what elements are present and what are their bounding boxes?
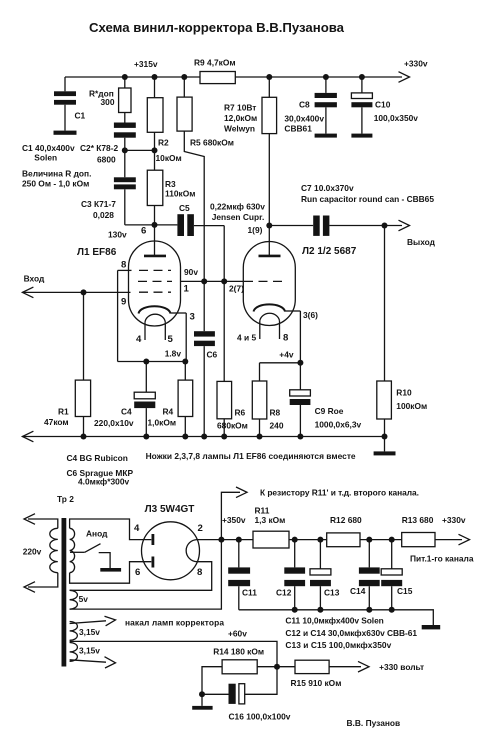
svg-text:R9 4,7кОм: R9 4,7кОм (194, 58, 236, 68)
wire R15 to +330 arrow (329, 661, 369, 672)
svg-text:CBB61: CBB61 (284, 124, 312, 134)
node pin labels L1 (121, 260, 198, 359)
wire anode lead L2 pin 1(9) (268, 226, 270, 256)
node +330 вольт label (379, 662, 424, 672)
tube L1 cathode arc (139, 306, 171, 313)
tube L1 anode bar pin 6 (144, 255, 166, 258)
transformer primary winding 220v (23, 514, 58, 593)
node pin 1(9) label (248, 225, 263, 235)
svg-text:C10: C10 (375, 100, 391, 110)
svg-text:3,15v: 3,15v (79, 646, 100, 656)
node junction dot R2 rail (152, 74, 158, 80)
tube L2 1/2 5687 envelope (243, 242, 295, 326)
resistor R10 100кОм (377, 226, 427, 437)
node junction dot +60v R14 R15 (274, 664, 280, 670)
svg-text:C16 100,0x100v: C16 100,0x100v (229, 712, 291, 722)
svg-text:4: 4 (134, 523, 140, 534)
capacitor C5 (177, 203, 224, 281)
svg-text:R13 680: R13 680 (402, 515, 434, 525)
capacitor C10 100,0x350v (351, 77, 418, 134)
svg-text:220v: 220v (23, 547, 42, 557)
capacitor C3 K71-7 0,028 (114, 150, 155, 225)
ground cap rail (422, 625, 441, 629)
capacitor C8 30,0x400v CBB61 (284, 77, 337, 134)
svg-text:6: 6 (135, 567, 140, 578)
svg-text:8: 8 (197, 567, 203, 578)
svg-text:240: 240 (270, 421, 284, 431)
capacitor C7 (301, 183, 434, 236)
svg-text:C11 10,0мкфх400v Solen: C11 10,0мкфх400v Solen (285, 616, 383, 626)
svg-text:4 и 5: 4 и 5 (237, 333, 256, 343)
tube L3 plate pin 4 (151, 534, 154, 545)
node +330v psu label (410, 515, 474, 564)
wire grid line L1 to L2 (180, 280, 244, 282)
resistor R7 12,0кОм Welwyn (224, 77, 277, 226)
resistor R2 10кОм (147, 77, 181, 163)
node pin labels L2 (237, 310, 318, 360)
svg-text:8: 8 (121, 260, 127, 271)
note nakal text (125, 618, 224, 628)
capacitor C15 (381, 540, 413, 610)
svg-text:R5 680кОм: R5 680кОм (190, 138, 234, 148)
node pin 6 label (108, 226, 146, 240)
tube L3 5W4GT envelope (142, 522, 200, 580)
node junction dot C16 left (199, 691, 205, 697)
svg-text:C13: C13 (324, 588, 340, 598)
tube L2 heater stubs (260, 321, 280, 339)
capacitor C4 220,0x10v (94, 362, 155, 437)
wire pin 3(6) L2 (285, 311, 300, 363)
title (89, 20, 345, 35)
svg-text:Л2 1/2 5687: Л2 1/2 5687 (302, 246, 357, 257)
svg-text:100кОм: 100кОм (396, 401, 427, 411)
wire ground rail with left arrow (22, 431, 384, 442)
svg-text:R2: R2 (158, 138, 169, 148)
resistor R14 180 кОм (213, 647, 264, 674)
tube L2 heater dome (260, 313, 280, 320)
svg-text:R3: R3 (165, 179, 176, 189)
svg-text:9: 9 (121, 297, 126, 308)
svg-text:В.В. Пузанов: В.В. Пузанов (347, 718, 401, 728)
svg-text:Jensen Cupr.: Jensen Cupr. (212, 212, 265, 222)
svg-text:C4: C4 (121, 407, 132, 417)
svg-text:C1 40,0x400v: C1 40,0x400v (22, 143, 75, 153)
transformer 3,15v winding 2 (70, 643, 101, 662)
svg-text:C6: C6 (207, 350, 218, 360)
labels C5 network (210, 202, 265, 223)
tube L1 grid g3 dashes (139, 269, 171, 271)
wire R14 to R15 (257, 666, 295, 668)
svg-text:6: 6 (141, 226, 146, 237)
svg-text:C12: C12 (276, 588, 292, 598)
svg-text:30,0x400v: 30,0x400v (284, 114, 324, 124)
node +60v label (228, 629, 247, 639)
wire R12 to R13 (360, 539, 402, 541)
node junction dot C14 top (366, 537, 372, 543)
wire pin 3 L1 (171, 313, 187, 362)
wire L1 cathode junction line (118, 361, 187, 363)
tube L1 EF86 envelope (129, 241, 181, 326)
svg-text:+330v: +330v (404, 59, 428, 69)
tube L1 heater pin 4 stub (144, 322, 146, 340)
capacitor C2 K78-2 6800 (114, 123, 136, 151)
resistor R1 47ком (44, 292, 91, 436)
svg-text:Выход: Выход (407, 237, 436, 247)
note second channel text (260, 488, 419, 498)
node pin labels L3 (134, 523, 203, 578)
tube L1 heater pin 5 stub (164, 322, 166, 340)
tube L1 grid g2 dashes (138, 280, 172, 282)
wire R13 to +330v arrow (435, 534, 470, 545)
capacitor C14 (350, 540, 380, 610)
svg-text:R14 180 кОм: R14 180 кОм (213, 647, 264, 657)
wire pin 8 L1 (118, 270, 132, 361)
tube L3 plate pin 6 (151, 557, 154, 568)
svg-text:C11: C11 (242, 588, 257, 598)
svg-text:R10: R10 (396, 388, 412, 398)
capacitor C9 Roe 1000,0x6,3v (290, 363, 362, 437)
capacitor C16 100,0x100v (202, 667, 291, 722)
svg-text:1000,0x6,3v: 1000,0x6,3v (315, 420, 362, 430)
capacitor C6 (194, 281, 218, 436)
svg-text:Ножки 2,3,7,8 лампы Л1 EF86 со: Ножки 2,3,7,8 лампы Л1 EF86 соединяются … (146, 451, 356, 461)
wire 5v winding bottom to pin 2 node (70, 540, 222, 610)
svg-text:680кОм: 680кОм (217, 421, 248, 431)
svg-text:+330 вольт: +330 вольт (379, 662, 424, 672)
node junction dot R7 rail (266, 74, 272, 80)
wire anode node to C7 (269, 225, 313, 227)
svg-text:+315v: +315v (134, 59, 158, 69)
tube L2 anode bar (259, 255, 281, 258)
node dots on cap rail (292, 607, 395, 613)
svg-text:Величина R доп.: Величина R доп. (22, 169, 91, 179)
svg-text:Анод: Анод (86, 529, 108, 539)
wire to second channel arrow (221, 487, 247, 540)
svg-text:C12 и C14 30,0мкфх630v СВВ-61: C12 и C14 30,0мкфх630v СВВ-61 (285, 628, 417, 638)
svg-text:+4v: +4v (279, 350, 294, 360)
node junction dot C10 rail (359, 74, 365, 80)
ground R10 (374, 437, 396, 456)
transformer 3,15v winding 1 (70, 622, 101, 641)
svg-text:0,22мкф 630v: 0,22мкф 630v (210, 202, 265, 212)
wire anode lead L1 (154, 225, 156, 255)
svg-text:300: 300 (101, 97, 115, 107)
svg-text:47ком: 47ком (44, 417, 69, 427)
svg-text:110кОм: 110кОм (165, 189, 195, 199)
capacitor C1 (54, 77, 86, 131)
ground C10 (351, 134, 372, 138)
svg-text:2: 2 (198, 523, 203, 534)
svg-text:4: 4 (136, 334, 142, 345)
svg-text:Пит.1-го канала: Пит.1-го канала (410, 554, 474, 564)
node +330v top label (404, 59, 428, 69)
svg-text:Вход: Вход (24, 274, 45, 284)
tube L3 label (145, 504, 195, 515)
node junction dot output R10 (382, 223, 388, 229)
ground C8 (315, 134, 337, 138)
resistor R11 1,3 кОм (253, 506, 289, 549)
node +315v label (134, 59, 158, 69)
svg-text:5: 5 (168, 334, 174, 345)
wire R11 to R12 (289, 539, 327, 541)
svg-text:1.8v: 1.8v (165, 349, 182, 359)
node pin 2(7) label (229, 284, 244, 294)
svg-text:Л1 EF86: Л1 EF86 (77, 247, 117, 258)
svg-text:Л3 5W4GT: Л3 5W4GT (145, 504, 195, 515)
node junction dot R2 bottom (152, 147, 158, 153)
wire anode node to C5 (155, 224, 178, 226)
resistor R8 240 (252, 363, 284, 437)
node junction dot C2 bottom (122, 147, 128, 153)
node junction dot +4v (297, 360, 303, 366)
tube L1 heater dome (145, 314, 165, 322)
node junction dot grid line C5 (221, 278, 227, 284)
svg-text:C13 и C15 100,0мкфх350v: C13 и C15 100,0мкфх350v (285, 640, 391, 650)
svg-text:Схема винил-корректора В.В.Пуз: Схема винил-корректора В.В.Пузанова (89, 20, 345, 35)
node junction dot anode L2 (266, 223, 272, 229)
node Выход label (407, 237, 436, 247)
svg-text:C2* К78-2: C2* К78-2 (80, 143, 119, 153)
tube L3 filament arc (186, 540, 197, 562)
svg-text:1,0кОм: 1,0кОм (148, 418, 177, 428)
svg-text:250 Ом - 1,0 кОм: 250 Ом - 1,0 кОм (22, 179, 89, 189)
node junction dot grid line R5 (201, 278, 207, 284)
wire heater arrow 1 (70, 616, 116, 626)
svg-text:C5: C5 (179, 203, 190, 213)
tube L1 grid g1 dashes (139, 291, 171, 293)
svg-text:C7 10.0x370v: C7 10.0x370v (301, 183, 354, 193)
svg-text:C3 К71-7: C3 К71-7 (81, 199, 116, 209)
svg-text:Тр 2: Тр 2 (57, 494, 74, 504)
svg-text:100,0x350v: 100,0x350v (374, 113, 419, 123)
resistor R5 680кОм (177, 77, 234, 281)
node junction dot C15 top (389, 537, 395, 543)
node junction dot anode L1 (152, 222, 158, 228)
resistor R9 4,7кОм (194, 58, 236, 84)
svg-text:К резистору R11' и т.д. второг: К резистору R11' и т.д. второго канала. (260, 488, 419, 498)
node Вход label (24, 274, 45, 284)
note pins text (146, 451, 356, 461)
tube L2 label (302, 246, 357, 257)
svg-text:C1: C1 (75, 111, 86, 121)
svg-text:3(6): 3(6) (303, 310, 318, 320)
node junction dot R'доп rail (122, 74, 128, 80)
svg-text:+60v: +60v (228, 629, 247, 639)
tube L2 cathode arc (254, 304, 286, 311)
node junction dot C11 top (236, 537, 242, 543)
labels C1 C2 notes (22, 143, 119, 220)
node junction dot C12 top (292, 537, 298, 543)
svg-text:1,3 кОм: 1,3 кОм (255, 515, 286, 525)
svg-text:3,15v: 3,15v (79, 627, 100, 637)
svg-text:R4: R4 (163, 407, 174, 417)
wire +60v center tap line (70, 641, 277, 666)
wire C7 to output (329, 220, 409, 231)
ground switch (100, 568, 121, 572)
resistor R6 680кОм (217, 281, 248, 436)
wire heater arrow 2 (70, 657, 116, 668)
svg-text:6800: 6800 (97, 155, 116, 165)
svg-text:12,0кОм: 12,0кОм (224, 113, 257, 123)
svg-text:10кОм: 10кОм (156, 153, 182, 163)
svg-text:C14: C14 (350, 586, 366, 596)
svg-text:3: 3 (190, 312, 195, 323)
svg-text:+350v: +350v (222, 515, 246, 525)
svg-text:130v: 130v (108, 230, 127, 240)
resistor R*доп 300 (89, 77, 131, 123)
svg-text:C4 BG Rubicon: C4 BG Rubicon (67, 453, 128, 463)
svg-text:1: 1 (184, 284, 190, 295)
note filter caps text (285, 616, 417, 651)
tube L1 label (77, 247, 117, 258)
ground R14 (192, 706, 212, 710)
svg-text:4.0мкф*300v: 4.0мкф*300v (78, 477, 129, 487)
resistor R15 910 кОм (291, 660, 342, 688)
ground C1 (54, 131, 77, 135)
svg-text:5v: 5v (79, 594, 89, 604)
node Вход input arrow (22, 287, 130, 298)
wire filter cap rail (239, 610, 433, 625)
svg-text:Welwyn: Welwyn (224, 124, 255, 134)
author signature (347, 718, 401, 728)
resistor R12 680 (327, 515, 362, 547)
svg-text:Solen: Solen (34, 153, 57, 163)
wire +315v top rail (65, 72, 410, 83)
transformer 5v winding (70, 590, 89, 609)
svg-text:R12 680: R12 680 (330, 515, 362, 525)
node junction dot C4 top (143, 359, 149, 365)
wire pin 8 to 5v winding top (70, 562, 212, 591)
svg-text:2(7): 2(7) (229, 284, 244, 294)
svg-text:R1: R1 (58, 407, 69, 417)
resistor R13 680 (402, 515, 435, 547)
svg-text:R15 910 кОм: R15 910 кОм (291, 678, 342, 688)
svg-text:C9 Roe: C9 Roe (315, 406, 344, 416)
switch anode center tap (70, 544, 110, 568)
wire C2 to R2 (125, 149, 155, 151)
svg-text:90v: 90v (184, 267, 198, 277)
capacitor C13 (310, 540, 340, 610)
node +350v label (222, 515, 246, 525)
wire HV top to pin 4 (70, 519, 152, 540)
resistor R4 1,0кОм (148, 362, 193, 437)
svg-text:+330v: +330v (442, 515, 466, 525)
transformer HV anode winding (70, 528, 109, 572)
note C4 C6 text (67, 453, 134, 487)
node junction dot C8 rail (323, 74, 329, 80)
node junction dot input R1 (81, 289, 87, 295)
svg-text:1(9): 1(9) (248, 225, 263, 235)
svg-text:R8: R8 (270, 408, 281, 418)
wire R14 left to ground (202, 667, 222, 706)
wire pin 2 to R11 (197, 539, 253, 541)
svg-text:8: 8 (283, 333, 289, 344)
svg-text:220,0x10v: 220,0x10v (94, 418, 134, 428)
node junction dot C13 top (317, 537, 323, 543)
transformer Tp2 label (57, 494, 74, 504)
svg-text:R11: R11 (255, 506, 270, 516)
svg-text:Run capacitor round can - CBB6: Run capacitor round can - CBB65 (301, 194, 434, 204)
svg-text:C8: C8 (299, 100, 310, 110)
wire HV bottom to pin 6 (70, 562, 152, 584)
tube L2 grid dashes (244, 280, 285, 282)
node junction dot pin2 B+ (218, 537, 224, 543)
resistor R3 110кОм (147, 150, 195, 225)
svg-text:R7 10Вт: R7 10Вт (224, 103, 256, 113)
node dots on ground rail (81, 434, 388, 440)
svg-text:накал ламп корректора: накал ламп корректора (125, 618, 224, 628)
node junction dot R4 top (182, 359, 188, 365)
node junction dot R5 rail (181, 74, 187, 80)
capacitor C12 (276, 540, 305, 610)
svg-text:C15: C15 (397, 586, 413, 596)
wire +4v line (260, 362, 301, 364)
svg-text:0,028: 0,028 (93, 210, 114, 220)
capacitor C11 (228, 540, 257, 610)
svg-text:R6: R6 (235, 408, 246, 418)
transformer Tp2 core (62, 518, 67, 667)
